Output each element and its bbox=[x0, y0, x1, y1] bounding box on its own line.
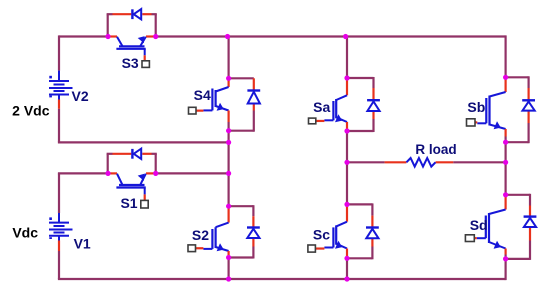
wire load rail right bbox=[453, 161, 505, 163]
IGBT Sd collector stub bbox=[505, 195, 507, 210]
gate stub Sd bbox=[474, 237, 477, 239]
battery V2 bbox=[58, 71, 60, 81]
wire D1 loop left vertical bbox=[107, 154, 109, 174]
IGBT S4 collector stub bbox=[228, 78, 230, 87]
IGBT Sa collector stub bbox=[346, 78, 348, 95]
wire Dc loop top bbox=[347, 203, 372, 205]
wire V2 bottom to V2- rail bbox=[58, 109, 60, 143]
wire Da loop bottom bbox=[347, 130, 374, 132]
IGBT Sd symbol bbox=[489, 210, 506, 215]
gate stub Sa bbox=[316, 120, 325, 122]
svg-text:Sb: Sb bbox=[467, 99, 485, 115]
junction Sc collector bbox=[344, 202, 349, 207]
battery V1 bbox=[58, 213, 60, 223]
junction Sa emitter bbox=[344, 128, 349, 133]
svg-text:S1: S1 bbox=[120, 195, 137, 211]
svg-text:V1: V1 bbox=[74, 235, 91, 251]
svg-text:Sd: Sd bbox=[470, 217, 488, 233]
wire load rail stub right bbox=[436, 161, 454, 163]
wire bottom rail bbox=[58, 278, 506, 280]
gate port Sc bbox=[308, 245, 316, 252]
wire V2 top lead bbox=[58, 35, 60, 70]
wire Db loop top bbox=[506, 76, 529, 78]
wire leg3 bottom bbox=[505, 259, 507, 280]
wire D1 loop right vertical bbox=[155, 154, 157, 174]
gate stub S4 bbox=[196, 110, 203, 112]
junction top rail / leg1 bbox=[225, 34, 230, 39]
wire leg1 top bbox=[228, 37, 230, 79]
wire top rail right segment bbox=[156, 35, 506, 37]
junction top rail / D3 left bbox=[105, 34, 110, 39]
wire D1 loop top right stub bbox=[142, 153, 151, 155]
IGBT S2 collector stub bbox=[228, 206, 230, 222]
wire S1 rail stub out of S1 emitter bbox=[146, 172, 156, 174]
wire leg1 bottom bbox=[228, 258, 230, 280]
gate port Sb bbox=[467, 119, 476, 126]
junction S1 rail / D1 left bbox=[105, 171, 110, 176]
wire leg2 top bbox=[346, 37, 348, 79]
IGBT Sb symbol bbox=[490, 92, 506, 97]
junction top rail / D3 right bbox=[153, 34, 158, 39]
junction top rail / leg2 bbox=[343, 34, 348, 39]
gate port Sa bbox=[309, 118, 316, 124]
diode Dc bbox=[371, 203, 373, 215]
wire D4 loop top bbox=[229, 77, 254, 79]
IGBT Sb emitter stub bbox=[505, 129, 507, 137]
wire D3 loop top right bbox=[152, 13, 157, 15]
junction S2 collector bbox=[226, 204, 231, 209]
wire D3 loop left vertical bbox=[107, 14, 109, 36]
IGBT Sc emitter stub bbox=[346, 249, 348, 259]
junction Sb collector bbox=[503, 75, 508, 80]
wire S1 rail stub into S1 collector bbox=[108, 172, 117, 174]
diode Db bbox=[527, 76, 529, 88]
junction leg2 / bottom rail bbox=[344, 276, 349, 281]
wire D1 loop top left stub bbox=[113, 153, 132, 155]
wire leg2 middle bbox=[346, 131, 348, 204]
wire Da loop top bbox=[347, 77, 374, 79]
svg-text:Sc: Sc bbox=[313, 227, 330, 243]
junction S4 emitter bbox=[226, 128, 231, 133]
diode Dd bbox=[529, 194, 531, 206]
IGBT S2 emitter stub bbox=[228, 251, 230, 258]
svg-text:Vdc: Vdc bbox=[12, 225, 38, 241]
diode Da bbox=[372, 77, 374, 88]
wire leg2 bottom bbox=[346, 258, 348, 279]
IGBT Sc collector stub bbox=[346, 204, 348, 221]
svg-text:S2: S2 bbox=[192, 227, 209, 243]
wire S1 rail left segment bbox=[58, 172, 108, 174]
wire Db loop bottom bbox=[506, 141, 529, 143]
IGBT Sa symbol bbox=[336, 95, 347, 100]
wire D2 loop top bbox=[229, 205, 254, 207]
terminal stub V2 minus bbox=[58, 100, 60, 109]
wire Dc loop bottom bbox=[347, 257, 372, 259]
wire top rail stub into S3 collector bbox=[108, 35, 117, 37]
resistor R load bbox=[406, 158, 435, 167]
diode D2 bbox=[252, 205, 254, 216]
wire S1 rail left vertical to V1 bbox=[58, 173, 60, 213]
junction load rail / leg3 bbox=[503, 160, 508, 165]
wire leg3 middle bbox=[505, 142, 507, 195]
diode D1 bbox=[131, 149, 133, 159]
svg-text:V2: V2 bbox=[72, 88, 89, 104]
junction S1 rail / leg1 bbox=[226, 171, 231, 176]
IGBT Sb collector stub bbox=[505, 77, 507, 92]
gate port S4 bbox=[189, 107, 197, 114]
svg-text:R load: R load bbox=[415, 142, 456, 157]
gate stub S2 bbox=[196, 247, 204, 249]
wire D3 loop top left bbox=[107, 13, 113, 15]
gate port S2 bbox=[188, 245, 196, 252]
junction Sa collector bbox=[344, 75, 349, 80]
IGBT Sd emitter stub bbox=[505, 249, 507, 255]
wire D3 loop right vertical bbox=[155, 14, 157, 36]
svg-text:2 Vdc: 2 Vdc bbox=[12, 102, 50, 118]
wire top rail left segment bbox=[59, 35, 108, 37]
wire D1 loop top right bbox=[152, 153, 157, 155]
junction Sd emitter bbox=[503, 256, 508, 261]
IGBT S4 symbol bbox=[216, 87, 229, 92]
wire D2 loop bottom bbox=[229, 256, 254, 258]
wire V2- rail to leg bbox=[58, 141, 229, 143]
svg-text:Sa: Sa bbox=[313, 99, 330, 115]
IGBT Sc symbol bbox=[336, 222, 347, 227]
svg-text:S4: S4 bbox=[194, 87, 211, 103]
junction V2- / leg1 bbox=[226, 140, 231, 145]
wire D4 loop bottom bbox=[229, 130, 254, 132]
wire Dd loop top bbox=[506, 194, 530, 196]
junction Sc emitter bbox=[344, 256, 349, 261]
diode D4 bbox=[253, 78, 255, 90]
gate stub S3 bbox=[144, 55, 146, 61]
wire leg1 middle bbox=[228, 131, 230, 207]
wire V1 bottom lead bbox=[58, 251, 60, 279]
wire load rail stub left bbox=[385, 161, 407, 163]
IGBT Sa emitter stub bbox=[346, 122, 348, 131]
junction Sd collector bbox=[503, 192, 508, 197]
wire Dd loop bottom bbox=[506, 258, 530, 260]
wire top rail stub out of S3 emitter bbox=[146, 35, 156, 37]
gate stub Sc bbox=[315, 247, 324, 249]
junction S1 rail / D1 right bbox=[153, 171, 158, 176]
gate port S3 bbox=[142, 61, 149, 68]
gate port S1 bbox=[141, 200, 148, 208]
wire D3 loop top right stub bbox=[142, 13, 151, 15]
junction load rail / leg2 bbox=[344, 160, 349, 165]
wire load rail left bbox=[347, 161, 385, 163]
IGBT S4 emitter stub bbox=[228, 111, 230, 123]
gate stub Sb bbox=[475, 121, 477, 123]
junction leg1 / bottom rail bbox=[226, 276, 231, 281]
junction Sb emitter bbox=[503, 140, 508, 145]
junction S2 emitter bbox=[226, 255, 231, 260]
gate port Sd bbox=[465, 235, 474, 242]
junction S4 collector bbox=[226, 76, 231, 81]
wire leg3 top bbox=[505, 35, 507, 77]
wire S1 rail right segment bbox=[156, 172, 229, 174]
terminal stub V1 minus bbox=[58, 241, 60, 252]
IGBT S1 symbol bbox=[117, 174, 123, 185]
IGBT S3 symbol bbox=[117, 37, 123, 47]
wire D3 loop top left stub bbox=[113, 13, 132, 15]
gate stub S1 bbox=[144, 194, 146, 200]
IGBT S2 symbol bbox=[216, 223, 229, 228]
wire D1 loop top left bbox=[107, 153, 113, 155]
diode D3 bbox=[131, 9, 133, 19]
svg-text:S3: S3 bbox=[122, 55, 139, 71]
